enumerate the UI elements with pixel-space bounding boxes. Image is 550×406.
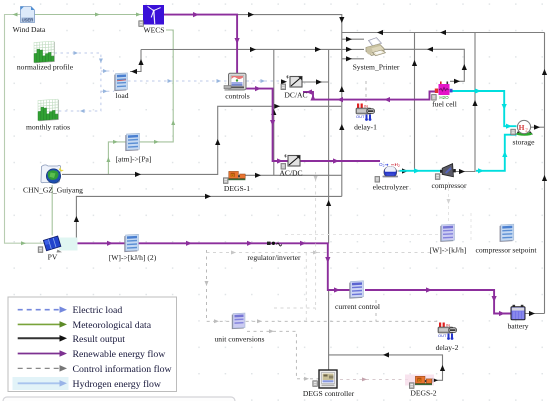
legend: hydrogen energy flow	[18, 379, 162, 390]
wire: Wind Data to WECS (meteorological)	[35, 13, 143, 17]
wire: control info dashed stub above delay-1	[365, 81, 367, 102]
wire: WECS result corner to printer riser	[237, 12, 344, 196]
wire: electrolyzer result up to top channel	[398, 33, 418, 174]
svg-text:CHN_GZ_Guiyang: CHN_GZ_Guiyang	[23, 186, 83, 195]
svg-text:PV: PV	[48, 253, 58, 262]
Wind Data input file icon	[21, 7, 35, 23]
svg-text:electrolyzer: electrolyzer	[373, 183, 409, 192]
svg-text:Result output: Result output	[73, 334, 126, 345]
svg-text:G: G	[418, 378, 421, 382]
svg-text:System_Printer: System_Printer	[353, 63, 400, 72]
wire: control info dashed from regulator row to unit conversions row	[205, 250, 438, 323]
svg-text:storage: storage	[513, 138, 536, 147]
wire: controls to DC/AC (electric dashed)	[247, 79, 289, 84]
[W]->[kJ/h] data card icon	[440, 224, 454, 242]
wire: control info dashed unit conversions to DEGS controller	[247, 329, 319, 381]
svg-text:battery: battery	[507, 322, 528, 331]
legend: result output	[18, 334, 126, 345]
wire: PV output black overlay segment	[59, 242, 76, 244]
svg-text:2: 2	[383, 164, 385, 168]
DEGS controller icon	[313, 370, 337, 388]
electrolyzer icon	[375, 162, 400, 182]
DC/AC inverter block	[281, 76, 302, 90]
wire: faint control info dashed into [W]->[kJ/h]	[285, 182, 471, 243]
svg-text:H: H	[519, 123, 525, 132]
compressor icon	[435, 164, 456, 180]
PV panel icon with highlight	[38, 236, 77, 252]
wire: current control to battery (renewable)	[365, 287, 511, 316]
svg-text:OUT: OUT	[356, 114, 365, 119]
wire: PV row through regulator/inverter down to current control (renewable)	[60, 241, 350, 293]
svg-text:unit conversions: unit conversions	[215, 335, 265, 344]
svg-text:USER: USER	[22, 17, 34, 22]
svg-text:Hydrogen energy flow: Hydrogen energy flow	[73, 379, 162, 390]
wire: normalized profile and monthly ratios to load (electric dashed)	[55, 51, 115, 113]
DEGS-2 diesel genset icon with selection halo	[405, 375, 434, 389]
svg-text:Wind Data: Wind Data	[13, 25, 46, 34]
svg-text:controls: controls	[225, 92, 250, 101]
wire: AC/DC to electrolyzer (renewable)	[301, 158, 381, 163]
svg-text:Electric load: Electric load	[73, 305, 123, 316]
load data card icon	[114, 73, 127, 91]
svg-text:OUT: OUT	[438, 333, 447, 338]
svg-text:delay-1: delay-1	[354, 123, 377, 132]
wire: fuel cell result to printer right side	[384, 47, 467, 84]
wire: PV result up and right to printer channel	[59, 194, 342, 246]
svg-text:compressor setpoint: compressor setpoint	[476, 246, 538, 255]
legend: control information flow	[18, 364, 173, 375]
wire: DEGS-1 result right and up to top channel	[245, 50, 342, 178]
wire: DEGS-2 result loop up to mid riser	[329, 352, 446, 383]
legend: electric load	[18, 305, 123, 316]
wire: CHN weather down to PV (meteorological)	[51, 185, 53, 236]
wire: storage result stub to right riser	[531, 125, 545, 130]
svg-text:delay-2: delay-2	[436, 343, 459, 352]
wire: load to controls (electric dashed)	[128, 79, 228, 83]
svg-text:compressor: compressor	[431, 181, 466, 190]
svg-text:[W]->[kJ/h] (2): [W]->[kJ/h] (2)	[109, 253, 157, 262]
current control data card icon	[349, 281, 363, 299]
wire: top result channel y=49.5 into printer	[141, 47, 364, 52]
regulator/inverter inline icon	[267, 242, 282, 246]
battery icon	[511, 305, 525, 320]
svg-text:[W]->[kJ/h]: [W]->[kJ/h]	[430, 246, 467, 255]
storage hydrogen tank icon	[511, 120, 533, 135]
svg-text:load: load	[115, 91, 128, 100]
wire: CHN result right-up-right to printer channel	[62, 104, 341, 177]
svg-text:Meteorological data: Meteorological data	[73, 320, 152, 331]
wire: control info dashed current control to delay-2	[375, 300, 377, 321]
svg-text:DEGS-1: DEGS-1	[224, 184, 250, 193]
wire: control info dashed DEGS controller to DEGS-2	[340, 377, 410, 381]
compressor setpoint data card icon	[500, 224, 514, 242]
svg-text:Renewable energy flow: Renewable energy flow	[73, 349, 167, 360]
CHN_GZ_Guiyang weather file icon	[41, 165, 64, 183]
System_Printer icon	[366, 38, 386, 56]
wire: compressor result right and up to top channel	[454, 33, 478, 175]
legend box	[8, 297, 177, 392]
svg-text:WECS: WECS	[143, 26, 164, 35]
wire: electrolyzer to compressor (hydrogen)	[400, 168, 442, 173]
wire: control info dashed verticals near regulator	[207, 172, 441, 321]
DEGS-1 diesel genset icon	[223, 171, 245, 183]
delay-1 icon	[356, 104, 375, 121]
svg-text:DC/AC: DC/AC	[284, 91, 307, 100]
svg-text:AC/DC: AC/DC	[279, 169, 302, 178]
wire: mid riser x=328.6 (multi-flow channel)	[326, 50, 331, 370]
wire: Wind Data left-down to PV (meteorological)	[5, 13, 46, 246]
legend: renewable energy flow	[18, 349, 167, 360]
svg-text:Control information flow: Control information flow	[73, 364, 173, 375]
WECS wind turbine component	[139, 5, 164, 26]
svg-text:[atm]->[Pa]: [atm]->[Pa]	[116, 155, 152, 164]
svg-text:DEGS controller: DEGS controller	[303, 389, 355, 398]
svg-text:fuel cell: fuel cell	[432, 100, 457, 109]
wire: fuel cell to storage (hydrogen)	[452, 88, 517, 128]
wire: printer input stubs	[342, 37, 364, 62]
AC/DC rectifier block	[281, 155, 300, 170]
svg-text:2: 2	[398, 164, 400, 168]
svg-text:DEGS-2: DEGS-2	[410, 389, 436, 398]
wire: battery result stub to right riser	[525, 311, 545, 316]
svg-text:current control: current control	[335, 302, 380, 311]
unit conversions data card icon	[232, 313, 245, 329]
[W]->[kJ/h] (2) data card icon	[124, 234, 138, 252]
normalized profile chart icon	[34, 41, 55, 63]
svg-text:D: D	[231, 173, 234, 177]
wire: fuel cell to DC/AC (renewable)	[303, 89, 436, 102]
legend: meteorological data	[18, 320, 152, 331]
wire: DC/AC result to mid riser	[303, 79, 329, 84]
delay-2 icon	[438, 323, 457, 340]
[atm]->[Pa] data card icon	[125, 133, 139, 151]
wire: top-right result channel y=32.5 to printer	[342, 30, 545, 35]
partial window edge at bottom-left	[3, 397, 235, 406]
svg-text:regulator/inverter: regulator/inverter	[247, 253, 301, 262]
wire: load result up to top channel (result output)	[130, 50, 144, 75]
wire: compressor to storage (hydrogen)	[476, 135, 517, 174]
wire: controls to AC/DC (renewable)	[246, 86, 288, 164]
controls computer icon	[224, 73, 246, 90]
svg-text:monthly ratios: monthly ratios	[26, 123, 70, 132]
monthly ratios chart icon	[38, 99, 59, 121]
wire: right edge riser from battery/storage up to top channel	[542, 33, 547, 314]
wire: CHN weather up to [atm]->[Pa] then to WECS (meteorological)	[106, 30, 175, 174]
fuel cell icon	[432, 82, 453, 101]
svg-text:normalized profile: normalized profile	[17, 63, 74, 72]
wire: WECS to controls (renewable)	[164, 12, 240, 73]
